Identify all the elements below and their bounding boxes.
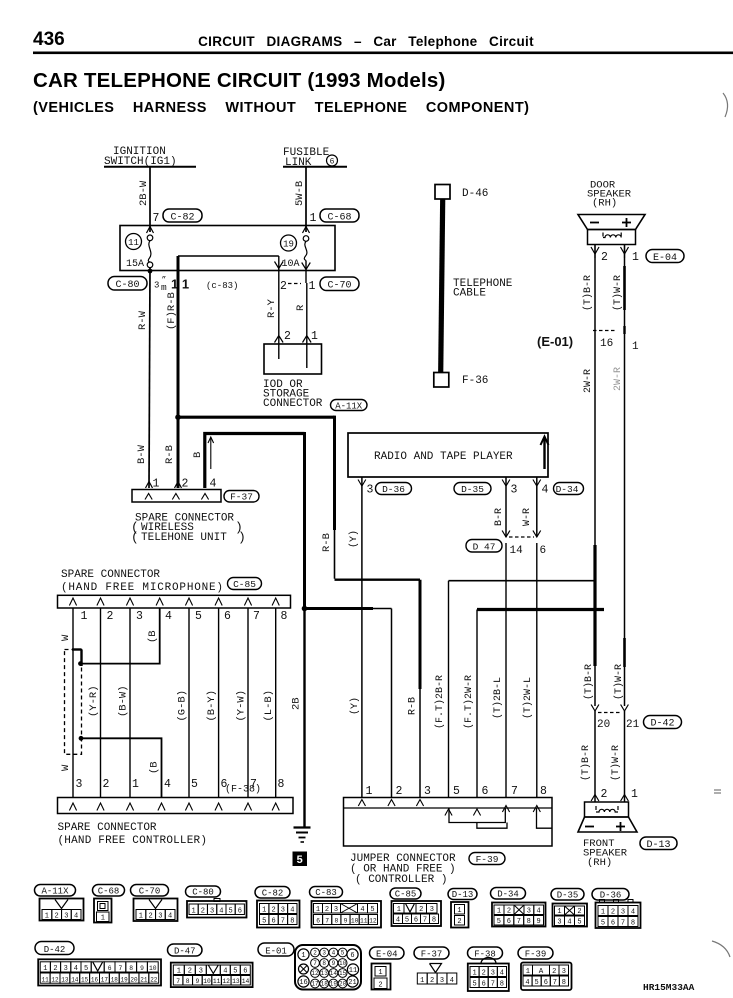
svg-text:D-47: D-47	[174, 946, 196, 956]
svg-text:4: 4	[168, 913, 172, 921]
svg-text:1: 1	[45, 913, 49, 921]
svg-text:3: 3	[491, 970, 495, 978]
svg-text:(T)W-R: (T)W-R	[610, 745, 622, 781]
svg-text:(E-01): (E-01)	[537, 334, 573, 349]
svg-text:8: 8	[290, 918, 294, 926]
svg-text:(c-83): (c-83)	[206, 281, 238, 291]
svg-text:R-B: R-B	[164, 445, 176, 464]
IOD or storage connector A-11X	[263, 344, 367, 412]
connector table D-47	[168, 944, 253, 987]
connector C-82 pin 7 label	[153, 209, 203, 225]
svg-text:2: 2	[601, 251, 608, 264]
svg-text:8: 8	[631, 920, 635, 928]
svg-text:R-B: R-B	[321, 533, 333, 552]
telephone cable	[441, 199, 513, 373]
svg-text:6: 6	[271, 918, 275, 926]
svg-text:5: 5	[195, 610, 202, 623]
svg-text:4: 4	[542, 484, 549, 497]
svg-text:(Y-W): (Y-W)	[236, 690, 248, 722]
F-38 pin numbers	[76, 778, 285, 791]
wire R from C-70 pin 1 to IOD connector pin 1	[295, 283, 318, 344]
svg-text:2: 2	[419, 906, 423, 914]
svg-text:): )	[238, 530, 246, 545]
svg-text:1: 1	[153, 478, 160, 491]
svg-text:(B-W): (B-W)	[118, 685, 130, 717]
svg-text:1: 1	[316, 906, 320, 914]
svg-text:R-W: R-W	[137, 310, 149, 330]
wire (T)2W-L from D-47 pin 6 to F-39 pin 8	[522, 543, 537, 797]
svg-text:15: 15	[81, 976, 89, 983]
svg-text:13: 13	[321, 970, 329, 977]
connector table E-04	[370, 947, 405, 990]
svg-text:5: 5	[497, 918, 501, 926]
fuse 10A	[282, 236, 309, 270]
svg-text:1: 1	[397, 906, 401, 914]
front speaker caption and D-13	[583, 837, 677, 869]
svg-text:D-42: D-42	[44, 945, 66, 955]
svg-text:(F.T)2B-R: (F.T)2B-R	[434, 675, 446, 729]
connector table D-36	[592, 889, 641, 929]
telephone cable F-36 terminal	[434, 373, 489, 388]
bold ground wire 2B	[291, 606, 308, 828]
svg-text:C-80: C-80	[192, 887, 214, 897]
svg-text:E-01: E-01	[265, 946, 287, 956]
svg-text:C-83: C-83	[315, 888, 337, 898]
svg-text:2: 2	[280, 280, 287, 293]
svg-text:2: 2	[552, 968, 556, 976]
wire R-B to F-37 pin2 arrow	[175, 482, 182, 489]
spare connector C-85 hand free microphone caption	[61, 569, 262, 594]
telephone cable D-46 terminal	[435, 185, 488, 201]
spare connector hand free controller caption	[58, 822, 208, 847]
svg-text:14: 14	[330, 970, 338, 977]
svg-text:5: 5	[191, 778, 198, 791]
svg-text:1: 1	[497, 908, 501, 916]
svg-text:TELEHONE UNIT: TELEHONE UNIT	[141, 532, 227, 544]
svg-text:11: 11	[213, 978, 221, 985]
bold wire from junction right toward radio feed	[178, 416, 420, 580]
svg-text:D-36: D-36	[382, 484, 405, 495]
svg-text:9: 9	[140, 965, 144, 972]
svg-text:9: 9	[196, 978, 200, 985]
svg-text:1: 1	[191, 908, 195, 916]
svg-text:2B: 2B	[291, 697, 303, 710]
svg-text:A: A	[539, 968, 544, 976]
svg-text:3: 3	[621, 909, 625, 917]
svg-text:4: 4	[210, 478, 217, 491]
bold wire (F.T)2W-R from speaker net to F-39 pin 6	[463, 610, 604, 798]
svg-text:10A: 10A	[282, 259, 300, 270]
connector F-38 strip	[58, 784, 294, 814]
junction D-42 pins 20 and 21	[591, 705, 681, 732]
svg-text:C-82: C-82	[170, 213, 194, 224]
svg-text:4: 4	[332, 950, 336, 957]
svg-text:3: 3	[64, 913, 68, 921]
connector table C-83	[310, 887, 382, 928]
radio pin 3 connector D-36	[358, 477, 412, 497]
wires from D-42 to front speaker	[591, 711, 638, 802]
svg-text:13: 13	[232, 978, 240, 985]
svg-text:4: 4	[360, 906, 364, 914]
svg-text:11: 11	[349, 967, 357, 975]
svg-text:7: 7	[313, 960, 317, 967]
wire (T)W-R labels above and below D-42	[610, 664, 625, 781]
svg-text:1: 1	[177, 968, 181, 976]
connector table C-82	[255, 887, 300, 928]
svg-text:HR15M33AA: HR15M33AA	[643, 982, 695, 993]
svg-text:1: 1	[81, 610, 88, 623]
wire W pin1 to pin3 through shield	[60, 608, 73, 797]
svg-text:F-36: F-36	[462, 375, 488, 387]
svg-text:”: ”	[162, 276, 167, 285]
svg-text:(G-B): (G-B)	[177, 690, 189, 722]
svg-text:6: 6	[544, 979, 548, 987]
svg-text:CONNECTOR: CONNECTOR	[263, 398, 323, 410]
radio and tape player	[348, 433, 549, 477]
svg-text:C-70: C-70	[139, 886, 161, 896]
svg-text:D-35: D-35	[461, 484, 484, 495]
ground symbol	[294, 828, 311, 843]
wire (T)2B-L from D-47 pin 14 to F-39 pin 7	[492, 543, 506, 797]
fuse 15A	[126, 235, 153, 270]
svg-text:6: 6	[507, 918, 511, 926]
svg-text:8: 8	[500, 981, 504, 989]
svg-text:5: 5	[453, 785, 460, 798]
svg-text:3: 3	[154, 281, 159, 291]
svg-text:6: 6	[350, 952, 354, 960]
svg-text:19: 19	[120, 976, 128, 983]
connector table F-37	[414, 947, 457, 985]
svg-text:D-34: D-34	[497, 889, 519, 899]
page curl artifacts	[712, 93, 730, 957]
jumper connector F-39 strip	[344, 798, 553, 847]
svg-text:R-B: R-B	[408, 697, 419, 715]
svg-text:2: 2	[53, 965, 57, 973]
wire fuse 10A output to C-70 pin 1	[302, 261, 311, 284]
svg-text:W: W	[60, 764, 72, 771]
svg-text:6: 6	[330, 158, 335, 167]
svg-text:6: 6	[238, 908, 242, 916]
svg-text:2: 2	[103, 778, 110, 791]
svg-text:2: 2	[430, 977, 434, 985]
svg-text:9: 9	[536, 918, 540, 926]
wire 5W-B from fusible link to C-68 pin 1	[294, 167, 310, 233]
connector table C-85	[390, 888, 441, 926]
door speaker RH	[578, 180, 645, 245]
wire (B) pin 4 top with jog to shield	[78, 608, 160, 666]
svg-text:14: 14	[510, 545, 524, 557]
connector C-80 label	[108, 277, 147, 292]
svg-text:1: 1	[631, 788, 638, 801]
svg-text:1: 1	[139, 913, 143, 921]
shield dashed box	[65, 650, 82, 755]
svg-text:4: 4	[74, 913, 78, 921]
connector C-70 pins 2 and 1 labels	[280, 277, 359, 293]
wire (G-B) pin 5	[177, 608, 190, 797]
svg-text:5: 5	[601, 920, 605, 928]
svg-text:C-82: C-82	[262, 888, 284, 898]
connector table D-13	[448, 889, 477, 928]
svg-text:SPARE CONNECTOR: SPARE CONNECTOR	[61, 569, 160, 581]
svg-text:(HAND FREE MICROPHONE): (HAND FREE MICROPHONE)	[61, 582, 224, 594]
svg-text:1: 1	[311, 330, 318, 343]
connector E-01 multi-pin	[258, 943, 361, 990]
svg-text:(HAND FREE CONTROLLER): (HAND FREE CONTROLLER)	[58, 835, 208, 847]
svg-text:D-34: D-34	[556, 484, 579, 495]
svg-text:17: 17	[311, 981, 319, 988]
svg-text:2: 2	[507, 908, 511, 916]
svg-text:8: 8	[432, 917, 436, 925]
svg-text:2: 2	[284, 330, 291, 343]
svg-text:4: 4	[165, 610, 172, 623]
svg-text:B-W: B-W	[136, 444, 148, 464]
svg-text:8: 8	[335, 918, 339, 925]
svg-text:3: 3	[440, 977, 444, 985]
svg-text:SPARE CONNECTOR: SPARE CONNECTOR	[58, 822, 157, 834]
svg-text:(T)B-R: (T)B-R	[582, 275, 594, 311]
bold wire B from F-37 pin 4	[192, 432, 305, 609]
svg-text:A-11X: A-11X	[335, 402, 363, 412]
svg-text:3: 3	[76, 778, 83, 791]
svg-text:3: 3	[158, 913, 162, 921]
svg-text:3: 3	[527, 908, 531, 916]
svg-text:6: 6	[482, 785, 489, 798]
svg-text:5: 5	[296, 855, 303, 867]
svg-text:1: 1	[472, 970, 476, 978]
svg-text:2: 2	[313, 950, 317, 957]
radio pin 4 connector D-34	[533, 477, 584, 537]
svg-text:4: 4	[450, 977, 454, 985]
svg-text:7: 7	[153, 212, 160, 225]
svg-text:1: 1	[301, 952, 305, 960]
svg-text:3: 3	[281, 907, 285, 915]
svg-text:20: 20	[130, 976, 138, 983]
svg-text:3: 3	[424, 785, 431, 798]
svg-text:7: 7	[176, 978, 180, 985]
front speaker RH	[578, 802, 637, 832]
wire (T)W-R door speaker pin 1 down	[612, 258, 625, 706]
svg-text:1: 1	[366, 785, 373, 798]
svg-text:C-85: C-85	[233, 579, 256, 590]
svg-text:14: 14	[71, 976, 79, 983]
connector table C-80	[186, 886, 247, 918]
svg-text:4: 4	[567, 919, 571, 927]
svg-text:19: 19	[283, 239, 294, 249]
svg-text:1 1: 1 1	[171, 277, 189, 292]
svg-text:1: 1	[526, 968, 530, 976]
junction D-47 pins 14 and 6	[466, 531, 546, 558]
svg-text:2: 2	[188, 968, 192, 976]
svg-text:1: 1	[632, 341, 639, 353]
circled 11	[126, 234, 142, 250]
wire (B-W) pin 3	[118, 608, 131, 797]
svg-text:4: 4	[525, 979, 529, 987]
svg-text:(B-Y): (B-Y)	[206, 690, 218, 722]
svg-text:6: 6	[224, 610, 231, 623]
svg-text:3: 3	[64, 965, 68, 973]
bold wire R-B down to F-39 pin 3	[408, 580, 421, 797]
svg-text:(L-B): (L-B)	[263, 690, 275, 722]
svg-text:12: 12	[51, 976, 59, 983]
svg-text:8: 8	[540, 785, 547, 798]
svg-text:5: 5	[228, 908, 232, 916]
svg-text:1: 1	[632, 251, 639, 264]
svg-text:5: 5	[370, 906, 374, 914]
svg-text:(B: (B	[149, 761, 161, 774]
svg-text:21: 21	[140, 976, 148, 983]
svg-text:7: 7	[621, 920, 625, 928]
wire (Y-W) pin 7	[236, 608, 249, 797]
fusible link 6	[283, 147, 347, 169]
wire (T)B-R door speaker pin 2 down	[582, 258, 595, 706]
svg-text:R: R	[295, 304, 307, 311]
svg-text:C-68: C-68	[98, 886, 120, 896]
svg-text:2: 2	[271, 907, 275, 915]
svg-text:436: 436	[33, 29, 65, 50]
svg-text:7: 7	[517, 918, 521, 926]
page number 436	[33, 29, 733, 116]
svg-text:1: 1	[557, 908, 561, 916]
svg-text:A-11X: A-11X	[41, 886, 69, 896]
svg-text:D-36: D-36	[600, 890, 622, 900]
svg-text:4: 4	[74, 965, 78, 973]
svg-text:2: 2	[378, 982, 382, 990]
svg-text:3: 3	[322, 950, 326, 957]
svg-text:8: 8	[527, 918, 531, 926]
wire 2B-W from ignition switch to C-82 pin 7	[138, 167, 154, 233]
svg-text:15A: 15A	[126, 259, 144, 270]
svg-text:7: 7	[423, 917, 427, 925]
svg-text:F-37: F-37	[421, 949, 443, 959]
spare connector F-37 wireless telephone unit	[132, 478, 259, 503]
svg-text:(T)W-R: (T)W-R	[612, 275, 624, 311]
svg-text:18: 18	[111, 976, 119, 983]
svg-text:F-37: F-37	[230, 492, 253, 503]
svg-text:7: 7	[553, 979, 557, 987]
svg-text:RADIO AND TAPE PLAYER: RADIO AND TAPE PLAYER	[374, 451, 513, 463]
connector table D-34	[491, 888, 546, 927]
svg-text:18: 18	[321, 981, 329, 988]
svg-text:11: 11	[360, 918, 368, 925]
connector table D-42	[35, 942, 161, 986]
svg-text:(T)B-R: (T)B-R	[583, 664, 595, 700]
svg-text:(T)W-R: (T)W-R	[613, 664, 625, 700]
svg-text:F-39: F-39	[525, 949, 547, 959]
svg-text:2: 2	[577, 908, 581, 916]
svg-text:CIRCUIT DIAGRAMS – Car Tel: CIRCUIT DIAGRAMS – Car Telephone Circuit	[198, 34, 534, 49]
connector c-83 pass-through pins	[154, 276, 238, 293]
svg-text:1: 1	[310, 212, 317, 225]
svg-text:7: 7	[491, 981, 495, 989]
svg-text:2: 2	[54, 913, 58, 921]
svg-text:2: 2	[201, 908, 205, 916]
svg-text:C-80: C-80	[115, 280, 139, 291]
svg-text:C-68: C-68	[327, 213, 351, 224]
svg-text:3: 3	[562, 968, 566, 976]
svg-text:1: 1	[43, 965, 47, 973]
svg-text:6: 6	[482, 981, 486, 989]
connector table C-68	[93, 885, 125, 923]
svg-text:12: 12	[311, 970, 319, 977]
svg-text:(B: (B	[147, 630, 159, 643]
svg-text:1: 1	[601, 909, 605, 917]
svg-text:(F.T)2W-R: (F.T)2W-R	[463, 675, 475, 729]
svg-text:12: 12	[222, 978, 230, 985]
svg-text:20: 20	[339, 981, 347, 988]
svg-text:W-R: W-R	[522, 508, 533, 526]
connector table D-35	[551, 889, 587, 927]
svg-text:9: 9	[332, 960, 336, 967]
svg-text:2: 2	[396, 785, 403, 798]
svg-text:4: 4	[631, 909, 635, 917]
svg-text:15: 15	[339, 970, 347, 977]
wire (T)B-R labels above and below D-42	[580, 664, 595, 781]
svg-text:D-42: D-42	[650, 719, 674, 730]
svg-text:3: 3	[557, 919, 561, 927]
wire (B) pin 4 bottom with jog to shield	[79, 736, 162, 797]
svg-text:2: 2	[611, 909, 615, 917]
svg-text:8: 8	[281, 610, 288, 623]
svg-text:20: 20	[597, 719, 610, 731]
svg-text:3: 3	[210, 908, 214, 916]
svg-text:8: 8	[186, 978, 190, 985]
bold horizontal from ground wire to F-39 pin 2 wire	[305, 607, 392, 610]
svg-text:4: 4	[290, 907, 294, 915]
svg-text:21: 21	[348, 979, 356, 987]
svg-text:10: 10	[203, 978, 211, 985]
svg-text:W: W	[60, 634, 72, 641]
svg-text:10: 10	[351, 918, 359, 925]
svg-text:D-13: D-13	[646, 840, 670, 851]
svg-text:5: 5	[405, 917, 409, 925]
wire (F.T)2B-R from speaker net to F-39 pin 5	[434, 581, 595, 797]
svg-text:3: 3	[430, 906, 434, 914]
svg-text:4: 4	[219, 908, 223, 916]
svg-text:1: 1	[378, 969, 382, 977]
ignition switch IG1	[104, 146, 196, 168]
F-39 pin numbers	[366, 785, 548, 798]
svg-text:16: 16	[91, 976, 99, 983]
spare connector wireless telephone unit caption	[131, 513, 246, 546]
svg-text:6: 6	[108, 965, 112, 972]
door speaker pins 2 and 1	[591, 245, 684, 265]
svg-text:( CONTROLLER ): ( CONTROLLER )	[355, 874, 447, 886]
svg-text:(F)R-B: (F)R-B	[166, 292, 178, 330]
connector table F-39	[518, 947, 572, 990]
svg-text:13: 13	[61, 976, 69, 983]
svg-text:(T)2B-L: (T)2B-L	[492, 677, 504, 719]
svg-text:1: 1	[132, 778, 139, 791]
svg-text:(: (	[131, 530, 139, 545]
svg-text:D 47: D 47	[473, 542, 496, 553]
svg-text:2W-R: 2W-R	[613, 367, 624, 391]
svg-text:12: 12	[369, 918, 377, 925]
svg-text:C-85: C-85	[395, 889, 417, 899]
wire (Y) from D-36 pin 3 to F-39 pin 1	[348, 488, 362, 797]
svg-text:5W-B: 5W-B	[294, 181, 306, 206]
svg-text:21: 21	[626, 719, 640, 731]
svg-text:B: B	[192, 452, 204, 458]
svg-text:5: 5	[534, 979, 538, 987]
svg-text:CABLE: CABLE	[453, 288, 486, 300]
svg-text:10: 10	[339, 960, 347, 967]
ground reference 5	[293, 852, 308, 868]
svg-text:2: 2	[482, 970, 486, 978]
svg-text:14: 14	[242, 978, 250, 985]
svg-text:8: 8	[322, 960, 326, 967]
svg-text:(Y): (Y)	[349, 697, 361, 715]
connector table C-70	[131, 885, 178, 922]
